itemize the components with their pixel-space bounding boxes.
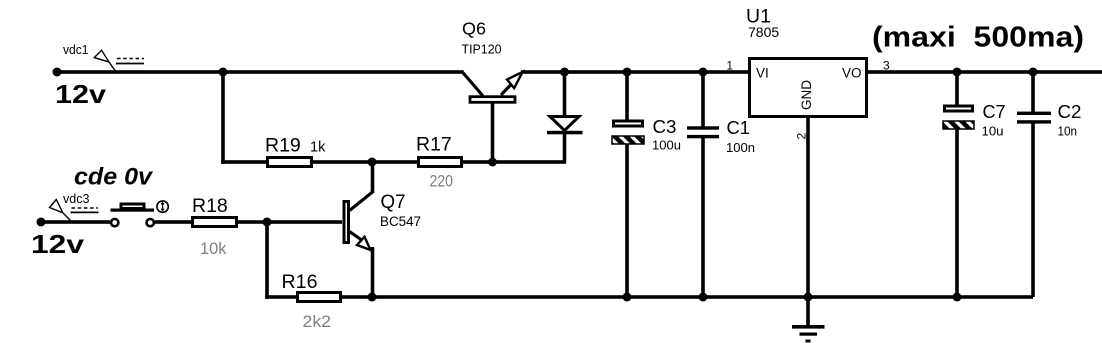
wire U1 GND pin vertical — [806, 117, 810, 297]
svg-text:12v: 12v — [31, 229, 85, 259]
svg-text:Q7: Q7 — [381, 192, 406, 213]
wire bottom rail — [340, 295, 1033, 299]
svg-text:(maxi 500ma): (maxi 500ma) — [872, 22, 1084, 54]
flag vdc3 probe triangle — [50, 200, 71, 221]
transistor Q7 emitter arrow — [357, 237, 371, 250]
diode D1 cathode bar — [547, 131, 583, 135]
svg-text:Q6: Q6 — [462, 19, 486, 39]
transistor Q6 emitter arrow — [507, 72, 523, 88]
svg-text:10n: 10n — [1058, 124, 1078, 139]
svg-text:C2: C2 — [1058, 101, 1082, 122]
wire switch to R18 — [155, 220, 192, 224]
node junction diode anode — [560, 68, 569, 77]
capacitor C7 negative plate (hatched) — [943, 121, 974, 129]
svg-text:1: 1 — [727, 60, 733, 72]
capacitor C2 bottom lead — [1031, 123, 1035, 297]
diode D1 triangle — [550, 117, 579, 131]
svg-text:7805: 7805 — [748, 24, 779, 40]
switch S1 bridge — [111, 209, 155, 212]
node junction C2 top — [1029, 68, 1038, 77]
wire top rail from U1 pin3 to right edge — [866, 70, 1102, 74]
node junction R16 branch — [263, 218, 272, 227]
svg-text:10k: 10k — [200, 239, 227, 258]
node junction Q7 emitter bottom — [368, 293, 377, 302]
node lower 12v endpoint dot — [37, 218, 46, 227]
transistor Q6 collector lead — [462, 71, 484, 96]
capacitor C1 plate 2 — [687, 135, 719, 138]
wire R16 branch vertical — [265, 222, 269, 299]
wire R19 branch vertical — [221, 72, 225, 164]
transistor Q6 emitter lead — [501, 74, 521, 95]
node junction Q6 base — [488, 158, 497, 167]
wire lower 12v to switch — [41, 220, 110, 224]
wire R19 to R17 — [313, 160, 418, 164]
svg-text:C1: C1 — [727, 117, 751, 138]
node junction Q7 collector — [368, 158, 377, 167]
svg-text:R19: R19 — [265, 135, 301, 157]
wire top rail from 12v to Q6 collector — [57, 70, 464, 74]
switch S1 button cap — [121, 204, 144, 209]
ground bar 3 — [806, 340, 811, 343]
switch S1 right terminal — [147, 219, 154, 226]
svg-text:10u: 10u — [982, 124, 1004, 139]
diode D1 bottom lead — [563, 133, 567, 162]
flag vdc1 dashed level line — [117, 58, 144, 60]
transistor Q7 collector vertical — [371, 162, 375, 193]
svg-text:100n: 100n — [726, 140, 755, 155]
node junction GND bottom — [804, 293, 813, 302]
capacitor C7 top lead — [955, 72, 959, 105]
svg-text:cde 0v: cde 0v — [74, 164, 153, 191]
svg-text:2k2: 2k2 — [303, 312, 332, 331]
svg-text:220: 220 — [430, 172, 454, 191]
capacitor C2 plate 2 — [1017, 120, 1051, 123]
node junction C3 top — [623, 68, 632, 77]
node junction C1 top — [699, 68, 708, 77]
svg-text:vdc3: vdc3 — [63, 191, 90, 206]
node junction C3 bottom — [623, 293, 632, 302]
svg-text:VO: VO — [842, 66, 862, 81]
svg-text:TIP120: TIP120 — [462, 42, 502, 57]
regulator U1 box — [750, 59, 867, 117]
flag vdc3 solid level line — [71, 211, 99, 213]
flag vdc1 probe triangle — [94, 50, 115, 71]
capacitor C7 bottom lead — [955, 129, 959, 297]
svg-text:vdc1: vdc1 — [63, 42, 89, 57]
ground bar 2 — [800, 333, 818, 336]
capacitor C1 bottom lead — [701, 138, 705, 297]
switch S1 left terminal — [111, 219, 118, 226]
flag vdc3 dashed level line — [72, 207, 99, 209]
capacitor C3 bottom lead — [625, 144, 629, 297]
wire R17 to diode bottom — [463, 160, 566, 164]
switch S1 actuator symbol — [157, 201, 168, 212]
ground bar 1 — [792, 325, 825, 329]
node junction C7 bottom — [953, 293, 962, 302]
transistor Q6 base stem — [491, 103, 495, 162]
transistor Q7 base bar — [344, 202, 349, 243]
transistor Q6 base bar — [470, 97, 515, 103]
resistor R17 — [419, 158, 462, 167]
svg-text:VI: VI — [756, 66, 769, 81]
transistor Q7 collector lead — [350, 192, 373, 211]
capacitor C2 plate 1 — [1017, 112, 1051, 115]
svg-text:BC547: BC547 — [380, 214, 421, 229]
ground stem — [806, 297, 810, 327]
wire R18 to Q7 base — [238, 220, 342, 224]
svg-text:R17: R17 — [416, 134, 452, 156]
wire top rail from Q6 emitter to U1 pin1 — [521, 70, 748, 74]
wire R19 branch horizontal — [221, 160, 267, 164]
capacitor C7 positive plate — [945, 106, 973, 111]
svg-text:C7: C7 — [983, 101, 1006, 122]
resistor R19 — [268, 158, 312, 167]
capacitor C1 top lead — [701, 72, 705, 127]
capacitor C1 plate 1 — [687, 126, 719, 129]
capacitor C3 top lead — [625, 72, 629, 120]
svg-text:C3: C3 — [653, 116, 677, 137]
svg-text:R18: R18 — [192, 195, 228, 217]
flag vdc1 solid level line — [116, 63, 144, 65]
svg-text:R16: R16 — [282, 271, 318, 293]
node junction top rail / R19 branch — [219, 68, 228, 77]
svg-text:GND: GND — [799, 80, 814, 110]
capacitor C3 positive plate — [614, 121, 643, 126]
diode D1 top lead — [563, 72, 567, 118]
node left 12v endpoint dot — [53, 68, 62, 77]
resistor R18 — [193, 218, 237, 227]
capacitor C3 negative plate (hatched) — [612, 136, 644, 144]
svg-text:100u: 100u — [652, 138, 681, 153]
transistor Q7 emitter lead — [350, 232, 369, 245]
wire R16 branch horizontal — [265, 295, 297, 299]
resistor R16 — [298, 293, 341, 302]
node junction C7 top — [953, 68, 962, 77]
transistor Q7 emitter vertical — [371, 247, 375, 297]
capacitor C2 top lead — [1031, 72, 1035, 112]
svg-text:12v: 12v — [55, 79, 107, 109]
node junction C1 bottom — [699, 293, 708, 302]
svg-text:1k: 1k — [310, 140, 326, 156]
